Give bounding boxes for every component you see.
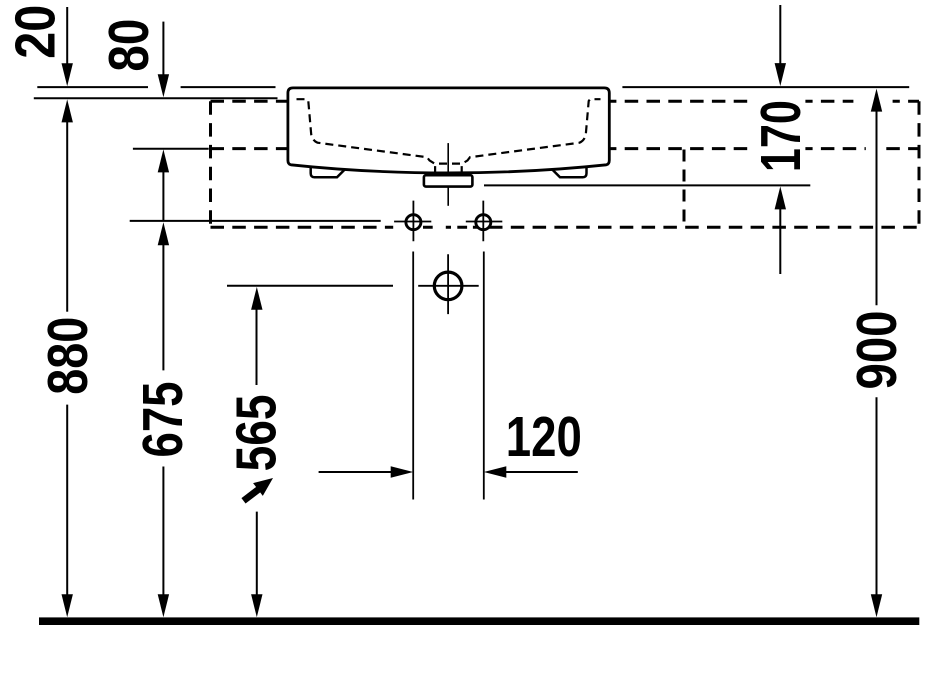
120 right arrow (506, 471, 578, 473)
170 bottom reference line (484, 184, 810, 186)
dim 565 floor arrow (251, 594, 262, 617)
svg-text:565: 565 (225, 394, 289, 471)
dim 565 leader arrow (244, 489, 259, 500)
dim 675 line lower (162, 467, 164, 596)
80 bottom reference line (133, 148, 209, 150)
washbasin left foot (311, 167, 346, 178)
dim 675 floor arrow (158, 594, 169, 617)
label 170 (755, 94, 805, 178)
svg-text:900: 900 (845, 311, 909, 390)
dim 565 up arrow (251, 287, 262, 310)
faucet hole (434, 272, 462, 300)
120 left arrow (319, 471, 392, 473)
dashed console rectangle right edge (918, 101, 921, 227)
120 left extension line (412, 252, 414, 500)
label 675 (136, 376, 186, 462)
dim 900 floor arrow (871, 594, 882, 617)
dashed console shelf line (211, 147, 920, 150)
svg-text:20: 20 (4, 5, 68, 59)
wall top reference line (rim level) (37, 86, 909, 88)
dim 565 line lower (256, 512, 258, 596)
label 565 (231, 391, 281, 475)
dim 880 floor arrow (62, 594, 73, 617)
left fixing hole (406, 215, 421, 230)
left fixing hole center tick (406, 214, 421, 230)
faucet hole crosshair (418, 254, 479, 314)
right fixing hole crosshair (466, 201, 503, 242)
dashed console rectangle left edge (209, 101, 212, 227)
faucet hole center tick (435, 273, 461, 299)
dim 880 line upper (66, 121, 68, 314)
120 right extension line (483, 252, 485, 500)
dim 80 down arrow (162, 22, 164, 76)
left fixing hole crosshair (394, 201, 431, 242)
label 80 (103, 15, 153, 75)
svg-text:170: 170 (749, 100, 813, 172)
svg-text:675: 675 (131, 382, 195, 458)
label 900 (850, 306, 900, 394)
drain centerline (447, 143, 449, 206)
svg-text:80: 80 (97, 19, 161, 72)
dim 170 up arrow (775, 186, 786, 209)
washbasin body (288, 88, 609, 173)
dashed console rectangle bottom edge centre dashes (423, 226, 478, 229)
drain box (424, 175, 473, 186)
dim 900 up arrow (871, 89, 882, 112)
mask gap in shelf dashed line around 900 line (866, 143, 882, 153)
washbasin right foot (551, 167, 587, 178)
drain recess side walls (435, 166, 462, 173)
dim 900 line lower (876, 397, 878, 595)
wall lower reference line (20 below rim) (34, 97, 278, 99)
dashed console rectangle top edge (211, 100, 920, 103)
mask gap in top dashed line around 900 arrow (853, 96, 892, 106)
675 top reference line (130, 220, 381, 222)
svg-text:880: 880 (36, 317, 100, 395)
dim 170 down arrow (779, 5, 781, 65)
dashed console rectangle bottom edge right part (489, 226, 919, 229)
label 20 (9, 0, 59, 62)
dashed console rectangle bottom edge left part (211, 226, 394, 229)
dim 675 up arrow (158, 222, 169, 245)
right fixing hole center tick (476, 214, 491, 230)
bowl inner dashed outline (297, 99, 601, 163)
svg-text:120: 120 (506, 405, 582, 469)
dim 20 down arrow (66, 7, 68, 66)
dim 880 line lower (66, 405, 68, 596)
dashed console inner vertical (683, 150, 686, 228)
label 120 (504, 412, 583, 460)
right fixing hole (476, 215, 491, 230)
dim 80 up arrow (158, 149, 169, 172)
565 top reference line (227, 285, 393, 287)
dim 20 up arrow / 880 top (62, 99, 73, 122)
floor line (39, 617, 919, 625)
label 880 (42, 312, 92, 400)
